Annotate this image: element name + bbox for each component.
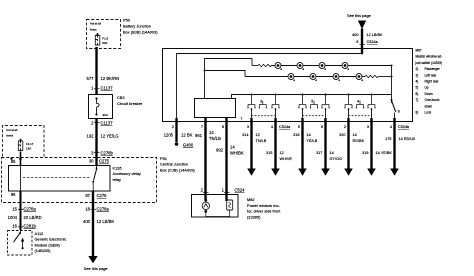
svg-text:317: 317	[316, 151, 322, 155]
wire: drops from common line to switch contacts	[251, 94, 373, 105]
svg-text:down: down	[425, 104, 433, 108]
svg-text:14: 14	[353, 133, 357, 137]
svg-text:30: 30	[89, 159, 94, 164]
svg-text:86: 86	[11, 192, 16, 197]
svg-text:Up: Up	[425, 86, 429, 90]
svg-text:12 BK: 12 BK	[181, 132, 193, 137]
pin 16 connector C281b	[12, 223, 36, 228]
bottom pins row of M67	[172, 125, 409, 129]
svg-text:Central Junction: Central Junction	[160, 162, 188, 167]
svg-text:F1.6: F1.6	[102, 37, 108, 41]
svg-text:318: 318	[293, 133, 299, 137]
svg-text:See this page: See this page	[347, 13, 371, 18]
pin 3 connector C278b	[91, 151, 113, 156]
svg-text:12 YE/LG: 12 YE/LG	[101, 134, 119, 139]
wire: pin 7 to motor (961 14 TN/LB)	[203, 118, 209, 200]
wire: module to switch commons	[232, 94, 392, 99]
pin 6 connector C524a (top)	[356, 40, 378, 44]
wire: relay 86 to GEM (1004 20 LB/RD)	[18, 191, 24, 230]
svg-text:F2.17: F2.17	[26, 142, 34, 146]
svg-text:15A: 15A	[26, 146, 31, 150]
svg-text:15: 15	[12, 206, 17, 211]
svg-text:14: 14	[330, 151, 334, 155]
svg-text:60A: 60A	[102, 41, 107, 45]
svg-text:7: 7	[201, 125, 203, 129]
svg-text:Right rear: Right rear	[425, 80, 440, 84]
svg-text:14: 14	[307, 133, 311, 137]
svg-text:C278b: C278b	[101, 151, 114, 156]
svg-text:times: times	[6, 134, 13, 138]
svg-text:12 LB/BK: 12 LB/BK	[367, 33, 384, 37]
svg-text:5: 5	[311, 99, 313, 103]
svg-text:18: 18	[85, 206, 90, 211]
svg-text:175: 175	[385, 137, 391, 141]
svg-text:RD/BK: RD/BK	[353, 139, 365, 143]
svg-text:320: 320	[339, 133, 345, 137]
svg-text:TN/LB: TN/LB	[256, 139, 267, 143]
switch cluster passenger (pins 3/4)	[247, 99, 279, 118]
pin 2 connector C1137	[91, 121, 113, 126]
svg-text:M82: M82	[247, 197, 255, 202]
svg-text:YE/LB: YE/LB	[307, 139, 318, 143]
ground G400	[183, 142, 194, 147]
label A112 Generic Electronic Module (GEM) (14B205)	[35, 231, 67, 253]
svg-text:Box (CJB) (14A003): Box (CJB) (14A003)	[160, 167, 196, 172]
svg-text:1004: 1004	[8, 215, 18, 220]
svg-text:C275: C275	[97, 193, 108, 198]
contact row 1 with resistor	[252, 63, 393, 70]
svg-text:14 YE/BK: 14 YE/BK	[376, 151, 393, 155]
wire: ground bus inside M67	[177, 53, 364, 122]
label: 30A	[103, 113, 108, 117]
label: 320 14 RD/BK	[339, 133, 364, 143]
label K126 Accessory delay relay	[113, 165, 141, 182]
svg-text:12 BK/RN: 12 BK/RN	[101, 76, 120, 81]
svg-text:Passenger: Passenger	[425, 67, 441, 71]
wire: right collector to lock switch	[391, 66, 393, 104]
svg-text:2): 2)	[416, 67, 419, 71]
svg-text:7: 7	[241, 117, 243, 121]
pin 30 connector C275	[89, 159, 110, 164]
svg-text:C524a: C524a	[367, 40, 379, 44]
one-touch module	[195, 99, 236, 122]
svg-text:2: 2	[172, 125, 174, 129]
pin 1 connector C1137	[91, 86, 113, 91]
relay K126 accessory delay	[9, 166, 111, 192]
svg-text:P50: P50	[123, 18, 131, 23]
svg-text:14: 14	[209, 130, 214, 135]
wire: pin 5 off-page (318 14 YE/LB)	[298, 118, 307, 176]
svg-text:P51: P51	[160, 156, 167, 161]
svg-text:(14B205): (14B205)	[35, 248, 52, 253]
label: See this page (top right)	[347, 13, 371, 18]
svg-text:(23395): (23395)	[247, 214, 261, 219]
svg-text:Generic Electronic: Generic Electronic	[35, 237, 67, 242]
svg-text:Circuit breaker: Circuit breaker	[117, 101, 143, 106]
svg-text:C275: C275	[99, 159, 110, 164]
svg-text:K126: K126	[113, 165, 122, 170]
wire: pin 3 off-page (319 14 YE/BK)	[367, 118, 376, 176]
svg-text:Module (GEM): Module (GEM)	[35, 242, 61, 247]
label: 961 14 TN/LB	[195, 130, 221, 141]
fuse F1.6 60A	[95, 33, 100, 45]
wire: pin 4 off-page (315 12 WH/VE)	[271, 118, 280, 176]
central junction box P51 (dashed)	[2, 158, 157, 203]
svg-text:Down: Down	[425, 92, 433, 96]
svg-text:5): 5)	[416, 86, 419, 90]
label: Hot at all times (CJB)	[6, 128, 17, 138]
svg-text:20 LB/RD: 20 LB/RD	[24, 215, 42, 220]
motor pins 2 / 1 connector C524	[201, 188, 246, 193]
label: F1.6 60A	[102, 37, 108, 45]
wire: fuse F1.6 to circuit breaker (577 12 BK/RN)	[94, 47, 100, 95]
label P51 Central Junction Box (CJB) (14A003)	[160, 156, 196, 173]
label: 175 14 RD/LB	[385, 137, 415, 141]
wire: pin 6 off-page (317 14 GY/OG)	[321, 118, 330, 176]
svg-text:TN/LB: TN/LB	[209, 136, 221, 141]
svg-text:One-touch: One-touch	[425, 98, 440, 102]
svg-text:4: 4	[357, 99, 359, 103]
svg-text:6: 6	[356, 40, 358, 44]
label: 992 14 WH/BK	[216, 144, 244, 155]
svg-text:8): 8)	[416, 111, 419, 115]
svg-text:Hot at all: Hot at all	[90, 22, 101, 26]
contact row 2 with resistor	[245, 74, 393, 81]
svg-text:4: 4	[390, 125, 392, 129]
svg-text:14: 14	[230, 144, 235, 149]
fuse F2.17 15A	[18, 139, 23, 151]
svg-text:C281b: C281b	[24, 223, 37, 228]
circuit breaker CB3 30A	[89, 95, 113, 119]
svg-text:992: 992	[216, 147, 224, 152]
wire: pin 3 off-page (314 12 TN/LB)	[247, 118, 256, 176]
svg-text:6: 6	[321, 125, 323, 129]
label CB3 Circuit breaker	[117, 95, 143, 106]
svg-text:85: 85	[11, 159, 16, 164]
svg-text:WH/VE: WH/VE	[280, 157, 293, 161]
svg-text:12: 12	[256, 133, 260, 137]
svg-text:314: 314	[242, 133, 248, 137]
svg-text:315: 315	[266, 151, 272, 155]
hot at all times box (F2.17, dashed)	[3, 126, 45, 157]
master window switch M67 box	[163, 49, 413, 122]
wire: pin 2 to ground G400 (1205 12 BK)	[175, 118, 179, 146]
label: 400 12 LB/BK	[83, 219, 114, 224]
svg-text:319: 319	[362, 151, 368, 155]
svg-text:7): 7)	[416, 98, 419, 102]
svg-text:Left rear: Left rear	[425, 73, 438, 77]
svg-text:GY/OG: GY/OG	[330, 157, 342, 161]
svg-text:192: 192	[87, 134, 95, 139]
generic electronic module GEM A112 (dashed)	[8, 231, 33, 256]
wire: pin 8 to motor (992 14 WH/BK)	[224, 118, 230, 201]
svg-text:5: 5	[298, 125, 300, 129]
motor M82 box	[192, 195, 239, 218]
svg-text:400: 400	[83, 219, 91, 224]
svg-text:Lock: Lock	[425, 111, 432, 115]
module pin 7 digit	[241, 117, 243, 121]
label: 319 14 YE/BK	[362, 151, 392, 155]
pin 86	[11, 192, 16, 197]
label: 1004 20 LB/RD	[8, 215, 42, 220]
lock switch (pin 8 / 4)	[392, 101, 400, 122]
svg-text:12: 12	[280, 151, 284, 155]
switch cluster left rear (pins 5/6)	[298, 99, 329, 118]
svg-text:Hot at all: Hot at all	[6, 128, 17, 132]
svg-text:8: 8	[222, 125, 224, 129]
svg-text:14 RD/LB: 14 RD/LB	[399, 137, 416, 141]
svg-text:C524: C524	[235, 188, 246, 193]
svg-text:relay: relay	[113, 177, 121, 182]
label: 577 12 BK/RN	[87, 76, 120, 81]
svg-text:30A: 30A	[103, 113, 108, 117]
label: 318 14 YE/LB	[293, 133, 318, 143]
svg-text:Box (BJB) (14A003): Box (BJB) (14A003)	[123, 30, 158, 35]
svg-text:WH/BK: WH/BK	[230, 150, 244, 155]
svg-text:3: 3	[260, 99, 262, 103]
svg-text:C278a: C278a	[97, 206, 110, 211]
svg-text:M67: M67	[416, 49, 422, 53]
wire: feed bus inside M67	[204, 59, 253, 99]
label: 1205 12 BK	[164, 132, 193, 137]
label: 192 12 YE/LG	[87, 134, 119, 139]
label M82 Power window motor, driver side front (23395)	[247, 197, 281, 219]
wire: breaker to relay (192 12 YE/LG)	[94, 119, 100, 166]
svg-text:16: 16	[12, 223, 17, 228]
svg-text:tor, driver side front: tor, driver side front	[247, 209, 281, 214]
svg-text:4): 4)	[416, 80, 419, 84]
label P50 Battery Junction Box (BJB) (14A003)	[123, 18, 158, 35]
svg-text:Master window ad-: Master window ad-	[416, 55, 443, 59]
label: 400 12 LB/BK (top)	[352, 33, 383, 37]
svg-text:961: 961	[195, 133, 203, 138]
wire: pin 6 drop into bus	[361, 49, 363, 54]
label: 317 14 GY/OG	[316, 151, 342, 161]
svg-text:6): 6)	[416, 92, 419, 96]
svg-text:Battery Junction: Battery Junction	[123, 24, 151, 29]
svg-text:3: 3	[247, 125, 249, 129]
svg-text:3): 3)	[416, 73, 419, 77]
wire: pin 2 off-page (320 14 RD/BK)	[344, 118, 353, 176]
svg-text:C524a: C524a	[279, 125, 291, 129]
wire: relay 87 down to See this page (400 12 LB/BK)	[88, 191, 97, 263]
wire: from other page into switch pin 6 (400 12 LB/BK)	[358, 21, 366, 54]
pin 87 connector C275	[85, 193, 107, 198]
wire: pin 4 off-page (175 14 RD/LB)	[390, 118, 399, 176]
svg-text:4: 4	[271, 125, 273, 129]
pin 15 connector C278a	[12, 206, 36, 211]
svg-text:8: 8	[398, 110, 400, 114]
svg-text:3: 3	[367, 125, 369, 129]
pin 18 connector C278a	[85, 206, 109, 211]
label: Hot at all times (P50)	[90, 22, 101, 32]
svg-text:times: times	[90, 27, 97, 31]
wire: fuse F2.17 to relay pin 85	[10, 152, 22, 166]
label: 315 12 WH/VE	[266, 151, 292, 161]
svg-text:577: 577	[87, 76, 95, 81]
svg-text:CB3: CB3	[117, 95, 125, 100]
svg-text:G400: G400	[183, 142, 194, 147]
svg-text:C1137: C1137	[101, 86, 114, 91]
svg-text:C278a: C278a	[24, 206, 37, 211]
svg-text:just switch (14529): just switch (14529)	[415, 61, 443, 65]
svg-text:Power window mo-: Power window mo-	[247, 203, 281, 208]
svg-text:Accessory delay: Accessory delay	[113, 171, 141, 176]
svg-text:See this page: See this page	[84, 266, 108, 271]
label: F2.17 15A	[26, 142, 34, 150]
svg-text:12 LB/BK: 12 LB/BK	[97, 219, 115, 224]
label: See this page (bottom)	[84, 266, 108, 271]
svg-text:C524b: C524b	[398, 125, 409, 129]
svg-text:400: 400	[352, 33, 358, 37]
label M67 Master window adjust switch (14529)	[415, 49, 443, 115]
switch cluster right rear (pins 2/3)	[344, 99, 375, 118]
label: 314 12 TN/LB	[242, 133, 267, 143]
battery junction box P50 (dashed)	[87, 20, 121, 49]
svg-text:A112: A112	[35, 231, 44, 236]
svg-text:87: 87	[85, 193, 90, 198]
svg-text:C1137: C1137	[101, 121, 114, 126]
svg-text:2: 2	[344, 125, 346, 129]
pin 85	[11, 159, 16, 164]
svg-text:1205: 1205	[164, 132, 174, 137]
